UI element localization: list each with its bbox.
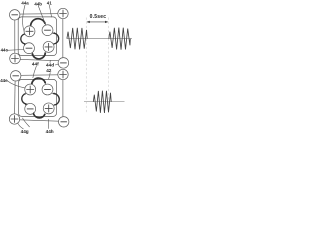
polarization arrow left (41): [21, 34, 26, 44]
signal baseline of element 42: [84, 101, 125, 103]
svg-text:44h: 44h: [46, 129, 54, 134]
wire right connector 41: [62, 19, 64, 58]
electrode 44e/44f (+) inner TL of 42: [25, 84, 36, 95]
leader 44a: [23, 5, 25, 32]
leader 44b: [38, 6, 45, 25]
electrode 44g (+) outer BL of 42: [9, 114, 19, 124]
leader 44g to frame: [22, 118, 29, 127]
polarization arrow bottom (42): [33, 113, 45, 117]
electrode 44d (-) outer BR of 41: [58, 58, 69, 69]
leader 44d second segment: [49, 60, 51, 63]
wire left connector 42: [14, 81, 17, 114]
burst 1 of element 41: [67, 28, 87, 50]
leader 44e: [7, 81, 25, 88]
polarization arrow top (42): [32, 78, 46, 85]
leader 44f: [33, 66, 37, 78]
arrowheads: [44, 22, 46, 25]
electrode (+) inner BR of 41: [43, 41, 54, 52]
svg-text:44c: 44c: [1, 48, 9, 53]
wire top connector 42 outer electrodes: [21, 74, 58, 77]
svg-text:44a: 44a: [21, 0, 29, 5]
leader 44c: [7, 49, 24, 52]
wire right connector 42: [62, 80, 64, 117]
electrode (-) inner TR of 42: [42, 84, 53, 95]
corner electrode (-) outer TL of 42: [11, 71, 21, 81]
electrode 44a (+) inner TL of 41: [24, 26, 35, 37]
electrode (-) inner BL of 42: [25, 103, 36, 114]
corner electrode (+) outer TR of 41: [58, 8, 68, 18]
electrode 44b (-) inner TR of 41: [42, 25, 53, 36]
leader 44d: [55, 64, 59, 65]
wire bottom connector 41: [20, 59, 58, 60]
leader 42: [49, 72, 51, 79]
corner electrode (+) outer BL of 41: [10, 53, 21, 64]
leader 44h: [47, 119, 49, 129]
corner electrode (-) outer TL of 41: [10, 10, 20, 20]
corner electrode (+) outer TR of 42: [58, 69, 68, 79]
arrowheads: [44, 82, 46, 85]
polarization arrow right (42): [53, 94, 59, 105]
burst 2 of element 41: [109, 28, 131, 50]
corner electrode (-) outer BR of 42: [59, 117, 69, 127]
dashed time marker right: [108, 18, 110, 115]
wire top connector 41 outer electrodes: [20, 13, 58, 15]
wire bottom connector 42: [20, 120, 59, 121]
electrode 44c (-) inner BL of 41: [24, 43, 35, 54]
leader 41: [49, 5, 51, 17]
transducer element 42 frame: [18, 79, 56, 116]
0.5sec interval arrow: [87, 21, 109, 23]
burst of element 42: [93, 91, 111, 113]
transducer element 41 frame: [18, 17, 56, 56]
electrode (+) inner BR of 42: [43, 103, 54, 114]
svg-text:41: 41: [47, 0, 52, 5]
svg-text:44f: 44f: [32, 62, 39, 67]
leader 44g: [18, 123, 24, 129]
wire left connector 41: [14, 20, 16, 53]
svg-text:44b: 44b: [34, 1, 42, 6]
polarization arrow left (42): [22, 94, 27, 104]
polarization arrow bottom (41): [32, 52, 45, 59]
signal baseline of element 41: [67, 38, 132, 40]
polarization arrow top (41: + to -): [31, 19, 45, 27]
svg-text:0.5sec: 0.5sec: [90, 14, 107, 20]
svg-text:42: 42: [46, 68, 52, 73]
svg-text:44g: 44g: [21, 129, 29, 134]
dashed time marker left: [85, 18, 87, 115]
polarization arrow right (41): [54, 33, 59, 44]
svg-text:44e: 44e: [0, 78, 8, 83]
